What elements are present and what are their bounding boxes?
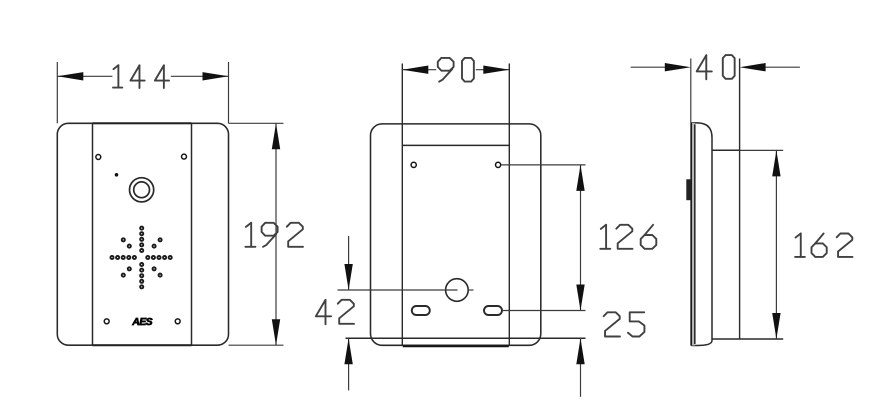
svg-text:AES: AES — [131, 316, 152, 328]
